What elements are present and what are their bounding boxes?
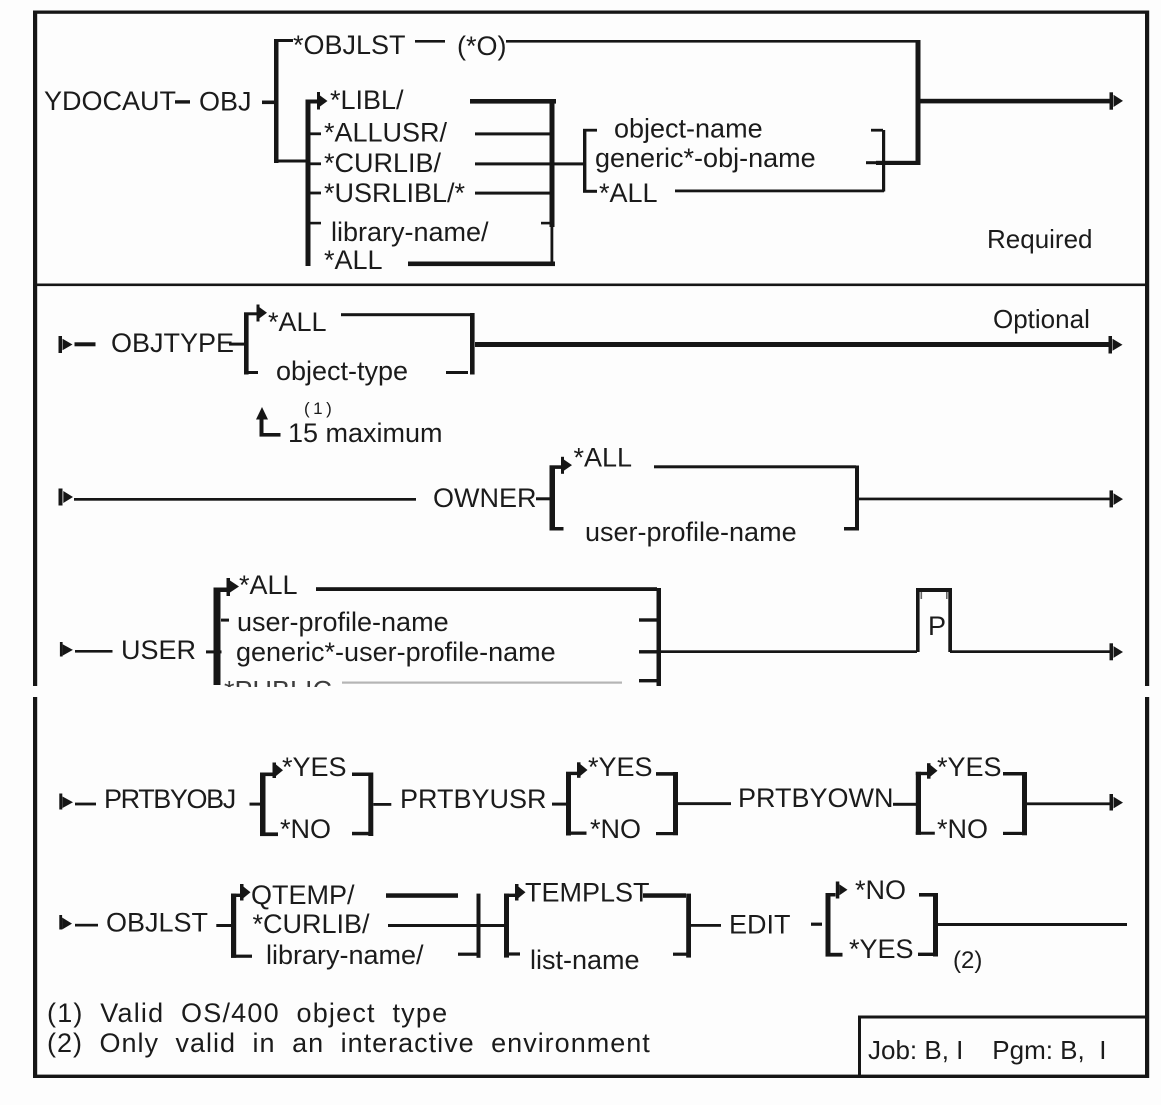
default arrow before *YES PRTBYOBJ (273, 763, 284, 779)
wire after *USRLIBL/* (475, 192, 551, 195)
wire dash after OBJ (262, 101, 276, 105)
wire object group right top stub (871, 129, 883, 132)
arrow end optional rail (1109, 336, 1123, 354)
value user-profile-name OWNER (585, 517, 797, 547)
wire dash after PRTBYUSR (552, 803, 566, 806)
keyword USER (121, 635, 196, 665)
value *ALLUSR/ (324, 118, 448, 148)
default arrow before *YES PRTBYUSR (577, 762, 588, 778)
wire dash after EDIT (811, 923, 822, 926)
wire faint clipped line after *PUBLIC (342, 682, 622, 684)
value *NO PRTBYOWN (937, 814, 988, 844)
svg-text:*YES: *YES (849, 934, 914, 964)
wire dash after *NO PRTBYOBJ (352, 832, 369, 836)
default arrow before *ALL USER (227, 578, 240, 596)
svg-text:library-name/: library-name/ (266, 940, 424, 970)
svg-text:PRTBYOWN: PRTBYOWN (738, 783, 894, 813)
frame: divider between required and optional (33, 284, 1149, 287)
label 15 maximum (288, 418, 443, 448)
value *OBJLST (293, 30, 406, 60)
svg-text:*NO: *NO (855, 875, 906, 905)
value *CURLIB/ OBJLST (253, 909, 371, 939)
arrow start OBJTYPE row (59, 336, 73, 353)
wire main exit thick (920, 99, 1110, 104)
wire right stub *PUBLIC row (639, 679, 657, 682)
svg-text:*ALL: *ALL (268, 307, 327, 337)
value generic*-obj-name (595, 143, 816, 173)
wire thick exit to final collector (876, 161, 919, 165)
wire dash after *NO PRTBYOWN (1003, 832, 1022, 835)
svg-text:object-name: object-name (614, 114, 763, 144)
library stack right collector thick part (550, 101, 555, 227)
footnote 1 (47, 998, 448, 1028)
wire OWNER lead line (74, 498, 416, 501)
value *ALL OWNER (574, 443, 633, 473)
value object-type (276, 356, 408, 386)
arrow end USER row (1110, 643, 1124, 660)
svg-text:P: P (928, 611, 946, 641)
wire stub *USRLIBL (310, 192, 321, 195)
PRTBYOBJ left bracket (260, 773, 278, 837)
value *NO PRTBYUSR (590, 814, 641, 844)
svg-text:*ALLUSR/: *ALLUSR/ (324, 118, 448, 148)
wire exit PRTBYOBJ (373, 803, 391, 806)
svg-text:Job: B, I Pgm: B, I: Job: B, I Pgm: B, I (868, 1035, 1106, 1065)
wire corner dash after *YES PRTBYUSR (656, 772, 673, 776)
value *LIBL/ (330, 85, 404, 115)
wire generic row right stub (866, 161, 876, 164)
wire OBJTYPE top corner (244, 312, 257, 315)
frame: right border sections 1-2 (1145, 11, 1149, 687)
svg-text:*ALL: *ALL (324, 245, 383, 275)
wire dash start OBJTYPE (75, 342, 96, 346)
value *YES PRTBYOBJ (282, 752, 347, 782)
label Required (987, 224, 1093, 254)
wire dash after list-name (673, 953, 687, 956)
value library-name/ OBJLST (266, 940, 424, 970)
value *USRLIBL/* (324, 178, 466, 208)
job box left (858, 1016, 861, 1079)
default arrow before TEMPLST (515, 884, 526, 901)
default arrow before *ALL OBJTYPE (257, 305, 268, 322)
wire dash after OWNER (536, 497, 550, 500)
value list-name (530, 945, 640, 975)
svg-text:Optional: Optional (993, 304, 1090, 334)
svg-text:generic*-user-profile-name: generic*-user-profile-name (236, 637, 556, 667)
keyword PRTBYOWN (738, 783, 894, 813)
svg-text:object-type: object-type (276, 356, 408, 386)
wire USER lead (75, 650, 113, 653)
svg-text:EDIT: EDIT (729, 910, 791, 940)
wire dash after OBJLST (216, 924, 231, 927)
wire dash after PRTBYOBJ (250, 803, 261, 806)
keyword OBJTYPE (111, 328, 234, 358)
wire OBJTYPE bottom corner (244, 371, 258, 374)
PRTBYUSR left bracket (566, 772, 587, 836)
wire corner to *OBJLST (274, 39, 293, 42)
value *NO PRTBYOBJ (280, 814, 331, 844)
svg-text:OBJLST: OBJLST (106, 908, 208, 938)
keyword YDOCAUT (44, 86, 176, 116)
object group right bracket (882, 130, 885, 192)
keyword EDIT (729, 910, 791, 940)
wire thick after *ALL (408, 262, 555, 267)
svg-text:USER: USER (121, 635, 196, 665)
job box label (868, 1035, 1106, 1065)
footnote ref (1) (304, 399, 335, 418)
svg-text:*CURLIB/: *CURLIB/ (253, 909, 371, 939)
value *PUBLIC clipped (224, 676, 332, 706)
wire thick optional rail (475, 342, 1109, 347)
keyword PRTBYOBJ (104, 784, 235, 814)
svg-text:OBJ: OBJ (199, 87, 252, 117)
value *YES PRTBYUSR (588, 752, 653, 782)
wire thick after QTEMP/ (386, 893, 458, 898)
parameter OBJ (199, 87, 252, 117)
footnote ref (2) (953, 947, 982, 974)
PRTBYOBJ right bracket (368, 773, 373, 837)
value *YES PRTBYOWN (937, 752, 1002, 782)
value *YES EDIT (849, 934, 914, 964)
arrow start USER row (60, 642, 73, 657)
svg-text:user-profile-name: user-profile-name (237, 607, 449, 637)
OWNER left bracket (550, 466, 556, 530)
svg-text:QTEMP/: QTEMP/ (251, 880, 355, 910)
wire thick after *LIBL/ (470, 99, 556, 104)
arrow end of required rail (1110, 92, 1124, 109)
wire (*O) to collector (506, 40, 917, 43)
svg-text:generic*-obj-name: generic*-obj-name (595, 143, 816, 173)
wire OWNER exit (859, 498, 1110, 501)
wire exit PRTBYUSR (678, 802, 731, 805)
arrow start PRTBYOBJ row (59, 794, 73, 810)
wire after *ALLUSR/ (475, 132, 551, 135)
value generic*-user-profile-name (236, 637, 556, 667)
arrow start OBJLST row (59, 915, 72, 930)
TEMPLST left bracket (504, 894, 520, 958)
PRTBYUSR right bracket (673, 772, 678, 835)
wire dash after object-type (446, 371, 468, 374)
frame: left border section 3 (33, 697, 37, 1078)
wire stub library-name (310, 222, 321, 225)
default arrow before *ALL OWNER (561, 457, 572, 474)
USER right bracket (657, 588, 662, 686)
value *ALL USER (239, 570, 298, 600)
wire USER top corner (214, 588, 227, 593)
wire after *ALL OWNER (654, 465, 856, 468)
svg-text:(1) Valid OS/400 object type: (1) Valid OS/400 object type (47, 998, 448, 1028)
value TEMPLST (525, 878, 650, 908)
wire object group top stub (583, 129, 597, 132)
wire after *CURLIB/ through to object group (475, 162, 586, 165)
EDIT right bracket (933, 893, 938, 957)
value QTEMP/ (251, 880, 355, 910)
svg-text:PRTBYUSR: PRTBYUSR (400, 784, 547, 814)
keyword OWNER (433, 483, 537, 513)
wire dash after library-name/ OBJLST (458, 953, 477, 956)
USER left bracket (214, 588, 221, 685)
svg-text:*NO: *NO (590, 814, 641, 844)
P box fragment (916, 588, 952, 652)
wire USER exit to P box (661, 650, 917, 653)
svg-text:PRTBYOBJ: PRTBYOBJ (104, 784, 235, 814)
PRTBYOWN right bracket (1022, 772, 1027, 835)
wire stub user-profile-name (221, 619, 229, 622)
wire OWNER top corner (550, 465, 562, 469)
svg-text:(1): (1) (304, 399, 335, 418)
OBJLST left bracket (231, 894, 252, 958)
keyword OBJLST (106, 908, 208, 938)
svg-text:(2) Only valid in an interacti: (2) Only valid in an interactive environ… (47, 1028, 651, 1058)
frame: left border sections 1-2 (33, 11, 37, 687)
wire object group bottom corner (583, 190, 597, 193)
value object-name (614, 114, 763, 144)
OWNER right bracket (855, 466, 859, 531)
wire thick after TEMPLST (643, 893, 686, 898)
svg-text:Required: Required (987, 224, 1093, 254)
value *ALL OBJTYPE (268, 307, 327, 337)
svg-text:*LIBL/: *LIBL/ (330, 85, 404, 115)
job box top (858, 1016, 1148, 1019)
repeat arrow 15 maximum (256, 407, 281, 437)
wire corner bottom of outer branch (274, 160, 309, 163)
svg-text:YDOCAUT: YDOCAUT (44, 86, 176, 116)
svg-text:*ALL: *ALL (239, 570, 298, 600)
svg-text:*NO: *NO (937, 814, 988, 844)
wire stub *CURLIB (310, 162, 321, 165)
wire OWNER right bottom stub (844, 527, 859, 531)
object group left bracket (583, 130, 586, 192)
EDIT left bracket (826, 893, 843, 957)
TEMPLST right bracket (686, 894, 691, 958)
OBJTYPE left bracket (244, 313, 249, 375)
svg-text:*ALL: *ALL (574, 443, 633, 473)
frame: required section top border (33, 11, 1149, 14)
wire dash after *YES EDIT (918, 953, 933, 956)
value *ALL object group (599, 178, 658, 208)
wire exit PRTBYOWN (1027, 802, 1110, 805)
wire right stub generic row (639, 650, 657, 653)
svg-text:*CURLIB/: *CURLIB/ (324, 148, 442, 178)
svg-text:OBJTYPE: OBJTYPE (111, 328, 234, 358)
svg-text:(*O): (*O) (457, 31, 507, 61)
wire dash after *NO PRTBYUSR (656, 832, 673, 835)
wire after *CURLIB/ through bracket (388, 924, 504, 927)
wire dash after PRTBYOWN (893, 803, 916, 806)
wire after *ALL OBJTYPE (341, 313, 473, 316)
arrow end OWNER row (1110, 490, 1124, 507)
wire right stub user-profile-name (639, 618, 658, 621)
wire corner dash after *YES PRTBYOBJ (352, 773, 369, 777)
footnote 2 (47, 1028, 651, 1058)
value *ALL bottom of library stack (324, 245, 383, 275)
value *NO EDIT (855, 875, 906, 905)
wire top corner to *LIBL (306, 100, 318, 104)
svg-text:15 maximum: 15 maximum (288, 418, 443, 448)
keyword PRTBYUSR (400, 784, 547, 814)
value library-name/ (331, 217, 489, 247)
arrow start OWNER row (59, 489, 74, 506)
wire dash start OBJLST (75, 924, 98, 927)
svg-text:(2): (2) (953, 947, 982, 974)
svg-text:*ALL: *ALL (599, 178, 658, 208)
svg-text:*OBJLST: *OBJLST (293, 30, 406, 60)
wire dash after OBJTYPE (229, 343, 244, 346)
svg-text:*YES: *YES (282, 752, 347, 782)
svg-text:list-name: list-name (530, 945, 640, 975)
svg-text:library-name/: library-name/ (331, 217, 489, 247)
wire dash after YDOCAUT (175, 100, 190, 103)
final collector vertical (916, 40, 921, 165)
svg-text:*USRLIBL/*: *USRLIBL/* (324, 178, 466, 208)
svg-text:*YES: *YES (588, 752, 653, 782)
value *CURLIB/ (324, 148, 442, 178)
wire after *ALL object group (675, 190, 884, 193)
value user-profile-name USER (237, 607, 449, 637)
wire OWNER bottom corner (550, 527, 564, 531)
default arrow before *LIBL (317, 92, 328, 110)
wire exit EDIT to right edge (938, 923, 1127, 926)
wire corner dash after *NO EDIT (919, 893, 933, 897)
wire corner dash after *YES PRTBYOWN (1003, 772, 1022, 776)
wire after *ALL USER (316, 587, 657, 591)
library stack left bracket (306, 101, 311, 266)
svg-text:user-profile-name: user-profile-name (585, 517, 797, 547)
OBJLST right bracket (477, 894, 481, 958)
wire exit TEMPLST group (691, 924, 721, 927)
OBJ outer branch vertical (274, 39, 279, 163)
wire after P box (950, 650, 1110, 653)
frame: right border section 3 (1145, 697, 1149, 1078)
svg-text:*NO: *NO (280, 814, 331, 844)
PRTBYOWN left bracket (916, 772, 935, 835)
svg-text:OWNER: OWNER (433, 483, 537, 513)
svg-text:*YES: *YES (937, 752, 1002, 782)
wire dash after USER (206, 650, 222, 653)
OBJTYPE right bracket (470, 313, 475, 375)
wire OBJLST to (*O) (415, 40, 445, 43)
wire dash start PRTBYOBJ (75, 803, 96, 806)
label Optional (993, 304, 1090, 334)
default arrow before *YES PRTBYOWN (927, 763, 938, 779)
arrow end PRTBYOWN row (1110, 794, 1124, 811)
frame: bottom border (33, 1075, 1149, 1078)
svg-text:TEMPLST: TEMPLST (525, 878, 650, 908)
default arrow before *NO EDIT (836, 882, 848, 899)
value (*O) (457, 31, 507, 61)
wire dash right of library-name (541, 222, 551, 225)
wire stub *ALLUSR (310, 132, 321, 135)
default arrow before QTEMP (240, 884, 251, 901)
library stack right collector thin part (551, 227, 554, 263)
